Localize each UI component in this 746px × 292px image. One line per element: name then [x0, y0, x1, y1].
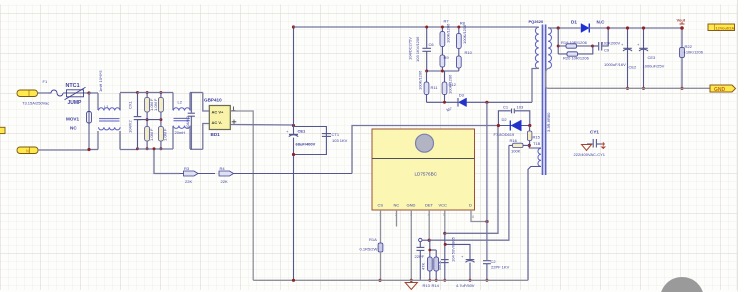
svg-text:AC V+: AC V+ — [212, 110, 225, 115]
node CE2 ground — [626, 87, 629, 90]
resistor R16 100K (DET feed) — [509, 138, 529, 154]
ground symbol — [405, 283, 417, 290]
svg-text:1mH 10*6*5: 1mH 10*6*5 — [98, 70, 103, 92]
svg-text:CX1: CX1 — [128, 100, 133, 109]
secondary top rail — [550, 27, 581, 29]
node R14 ground — [435, 279, 438, 282]
svg-text:CE3: CE3 — [648, 55, 657, 60]
ground symbol (CY1 left) — [582, 145, 592, 151]
svg-text:1000uF/16V: 1000uF/16V — [604, 62, 626, 67]
svg-text:R11: R11 — [431, 85, 439, 90]
wire mid junction CX1 to col B — [138, 119, 161, 121]
wire R4 to 352 riser — [234, 173, 353, 175]
resistor R2 (1.0M bottom, col A) — [145, 127, 150, 142]
node drain/C2 tap — [485, 101, 488, 104]
svg-text:N: N — [26, 149, 29, 154]
node CE3 top — [642, 26, 645, 29]
node: L line junction — [87, 91, 90, 94]
svg-text:R22: R22 — [685, 44, 693, 49]
svg-text:1.0M F: 1.0M F — [149, 128, 154, 141]
svg-text:MOV1: MOV1 — [66, 117, 79, 122]
svg-text:104/X2: 104/X2 — [185, 116, 190, 129]
capacitor C9 102K200V — [593, 28, 621, 53]
node C2 ground — [485, 279, 488, 282]
svg-text:R3: R3 — [184, 166, 190, 171]
svg-text:104/DC275V: 104/DC275V — [408, 37, 413, 60]
svg-text:R10: R10 — [465, 50, 473, 55]
svg-text:Vout: Vout — [677, 18, 686, 23]
node CE1 ground — [292, 279, 295, 282]
svg-text:CT1: CT1 — [332, 132, 340, 137]
svg-text:L1: L1 — [104, 104, 109, 109]
svg-text:100K/1206: 100K/1206 — [446, 23, 451, 43]
svg-text:CE2: CE2 — [629, 65, 638, 70]
svg-text:22PF 1KV: 22PF 1KV — [491, 265, 510, 270]
node col A mid — [146, 118, 149, 121]
resistor pair col B (1.0M) — [153, 93, 168, 149]
node R7 top — [441, 26, 444, 29]
NTC1 (thermistor, JUMP) — [63, 83, 89, 106]
node R12 bottom — [443, 101, 446, 104]
resistor R12 100K/1206 — [442, 71, 457, 102]
capacitor CE1 68uF/400V (bulk) — [286, 27, 298, 280]
svg-text:GND: GND — [714, 87, 726, 93]
svg-text:T1B: T1B — [533, 141, 541, 146]
svg-text:20mH: 20mH — [175, 130, 186, 135]
svg-text:1.0M F: 1.0M F — [163, 128, 168, 141]
node R22 ground — [680, 87, 683, 90]
wire drain riser — [486, 102, 488, 260]
left edge connector fragment — [0, 127, 5, 133]
transformer core — [543, 25, 551, 176]
wire CE1/CT1 loop — [294, 127, 327, 155]
node CX1 bottom — [136, 147, 139, 150]
svg-text:R14: R14 — [432, 283, 440, 288]
svg-text:R9: R9 — [444, 55, 450, 60]
node D2 anode — [528, 124, 531, 127]
node mid C6 — [425, 70, 428, 73]
connector J2 (neutral N) — [17, 147, 38, 154]
node CE4 ground — [469, 279, 472, 282]
node Vout — [680, 26, 684, 30]
svg-text:100K/1206: 100K/1206 — [462, 24, 467, 44]
wire R3 to R4 — [198, 173, 215, 175]
svg-text:GBP410: GBP410 — [204, 98, 222, 103]
diode D2 F7.8OD619 (VCC rectifier) — [494, 117, 530, 137]
transformer aux winding T1B — [528, 145, 541, 280]
wire top rail CX1 to L2 — [138, 92, 174, 94]
common-mode choke L1 — [98, 70, 120, 150]
node aux top junction — [528, 144, 531, 147]
wire col A — [146, 93, 148, 149]
svg-text:F1: F1 — [43, 79, 48, 84]
svg-text:NTC1: NTC1 — [66, 83, 80, 89]
resistor R4 22K — [219, 166, 234, 184]
svg-text:222/400VAC-CY1: 222/400VAC-CY1 — [574, 152, 606, 157]
wire VCC pin down — [444, 210, 446, 233]
wire AC rail down to R3 rail — [154, 149, 180, 174]
node D pin junction — [485, 220, 488, 223]
svg-text:100K/1206: 100K/1206 — [418, 70, 423, 90]
wire D3 to drain — [467, 101, 533, 103]
node CS ground — [378, 279, 381, 282]
wire D pin to drain riser — [471, 210, 487, 222]
svg-text:22K: 22K — [185, 179, 192, 184]
svg-text:103 1KV: 103 1KV — [332, 138, 348, 143]
svg-text:CY1: CY1 — [590, 130, 599, 135]
svg-text:PQ2620: PQ2620 — [529, 19, 544, 24]
svg-text:JUMP: JUMP — [68, 100, 83, 106]
svg-text:NC: NC — [394, 203, 400, 208]
node mid R9 — [441, 70, 444, 73]
svg-text:D3: D3 — [459, 93, 465, 98]
resistor R1 (1.0M top, col A) — [145, 98, 150, 113]
power marker (CY1 right) — [601, 142, 607, 149]
wire VCC feed from D2 — [445, 126, 498, 234]
capacitor CX1 104/X2 — [128, 93, 142, 149]
svg-text:DET: DET — [425, 203, 434, 208]
svg-text:22PF: 22PF — [415, 254, 425, 259]
svg-text:102K200V: 102K200V — [602, 41, 621, 46]
wire bridge minus output — [231, 111, 254, 280]
wire D1 cathode rail — [589, 27, 682, 29]
svg-text:R13: R13 — [423, 283, 431, 288]
node CE1 bottom — [292, 153, 295, 156]
node CE4 branch — [444, 243, 447, 246]
node R19/R20 right — [591, 45, 594, 48]
svg-text:104/X2: 104/X2 — [128, 120, 133, 133]
svg-text:F7.8OD619: F7.8OD619 — [494, 132, 515, 137]
wire J1 to fuse — [38, 92, 49, 94]
wire into bridge pins — [203, 93, 209, 112]
svg-text:LD7576BC: LD7576BC — [415, 172, 438, 177]
fuse F1 — [43, 79, 64, 96]
node: top rail corner — [292, 25, 295, 28]
connector output Vout 12V — [708, 24, 735, 31]
wire DET pin down — [428, 210, 430, 240]
resistor R13 47K — [421, 240, 433, 288]
resistor R10 100K/1206 — [456, 50, 472, 68]
node CX1 top — [136, 91, 139, 94]
svg-text:100K: 100K — [511, 149, 521, 154]
resistor R20 10R/1206 — [558, 46, 593, 61]
svg-text:NC: NC — [70, 126, 77, 131]
primary ground rail — [253, 279, 528, 281]
svg-text:R19 10R/1206: R19 10R/1206 — [561, 40, 588, 45]
svg-text:BD1: BD1 — [211, 132, 221, 137]
capacitor CX2 (X-cap at bridge) — [185, 93, 195, 150]
node R19/R20 left — [557, 45, 560, 48]
wire L1 to CX1 — [120, 92, 138, 94]
wire L2 to CX2 column — [190, 92, 203, 94]
wire CS pin down — [380, 210, 382, 243]
diode D3 M7 — [446, 93, 467, 113]
MOV1 (NC) — [66, 112, 91, 131]
top rail (+HV bus) — [294, 26, 535, 28]
node R13 ground — [428, 279, 431, 282]
resistor R11 100K/1206 — [418, 70, 439, 102]
svg-text:VCC: VCC — [439, 203, 448, 208]
svg-text:R4: R4 — [220, 166, 226, 171]
node R8 top — [457, 26, 460, 29]
diode D1 (output rectifier) — [571, 20, 605, 33]
svg-text:103 1KV/1206: 103 1KV/1206 — [415, 36, 420, 62]
connector J1 (line input L) — [17, 90, 38, 97]
svg-text:AC V-: AC V- — [212, 120, 223, 125]
node col B top — [159, 91, 162, 94]
svg-text:C6: C6 — [429, 42, 435, 47]
capacitor CE2 1000uF/16V — [604, 28, 637, 88]
svg-text:D: D — [469, 203, 472, 208]
svg-text:GND: GND — [407, 203, 416, 208]
snubber bottom wire to D3 — [427, 101, 459, 103]
wire bridge plus output — [231, 124, 294, 127]
gray circle watermark bottom-right — [660, 277, 704, 292]
svg-text:D2: D2 — [502, 117, 508, 122]
capacitor 22PF (DET filter) — [415, 247, 425, 280]
node col A top — [146, 91, 149, 94]
svg-text:R15: R15 — [533, 135, 541, 140]
svg-text:R7: R7 — [444, 19, 450, 24]
IC U1 LD7576BC — [372, 129, 475, 210]
svg-text:47K: 47K — [421, 263, 426, 270]
node col A bottom — [146, 147, 149, 150]
resistor R19 10R/1206 — [558, 40, 592, 48]
resistor R15 (series with D2) — [527, 126, 540, 147]
svg-text:CE1: CE1 — [298, 129, 307, 134]
svg-text:L2: L2 — [178, 100, 183, 105]
capacitor C1 103 (across D2) — [498, 105, 529, 126]
capacitor CE4 4.7uF/50V (VCC bulk) — [445, 244, 475, 288]
node GND rail — [410, 279, 413, 282]
svg-text:R1A: R1A — [369, 237, 377, 242]
capacitor CE3 1000uF/25V — [637, 28, 665, 88]
svg-text:T3.15A/250Vac: T3.15A/250Vac — [22, 101, 49, 106]
choke L2 20mH — [173, 93, 190, 150]
resistor R3 22K — [180, 166, 199, 184]
node col B bottom — [159, 147, 162, 150]
wire VCC feed riser — [352, 126, 498, 174]
Vout power port — [677, 18, 686, 25]
capacitor C10 104 50V/0805 (VCC decoupling) — [441, 233, 456, 280]
connector output GND — [710, 85, 736, 93]
node D2 cathode — [497, 124, 500, 127]
node CE2 top — [626, 26, 629, 29]
resistor R22 10K/1206 (bleeder) — [680, 28, 704, 88]
transformer secondary winding — [548, 28, 551, 69]
svg-text:68uF/400V: 68uF/400V — [296, 142, 316, 147]
node CE3 ground — [642, 87, 645, 90]
node col B mid — [159, 118, 162, 121]
svg-text:R16: R16 — [510, 138, 518, 143]
node R3 rail tap — [153, 147, 156, 150]
resistor R9 100K/1206 — [440, 55, 449, 67]
capacitor CY1 222/400VAC — [574, 130, 606, 158]
svg-text:4.7uF/50V: 4.7uF/50V — [456, 283, 475, 288]
svg-text:R20 10R/1206: R20 10R/1206 — [563, 56, 590, 61]
node C10 ground — [443, 279, 446, 282]
resistor R8 100K/1206 — [456, 21, 466, 72]
wire top rail into L1 — [89, 92, 98, 94]
wire L junction down — [88, 93, 90, 150]
wire GND pin down — [410, 210, 412, 283]
node CE1 plus — [292, 124, 295, 127]
node snubber left — [557, 26, 560, 29]
net stub with circle (DET cap tap) — [419, 238, 430, 247]
svg-text:D1: D1 — [571, 20, 577, 25]
svg-text:1.0M F: 1.0M F — [153, 98, 158, 111]
node C6 top — [425, 26, 428, 29]
svg-text:104 50V/0805: 104 50V/0805 — [451, 236, 456, 262]
svg-text:C1: C1 — [503, 105, 509, 110]
svg-text:0.1R5/2W: 0.1R5/2W — [360, 247, 378, 252]
wire J2 to L1 — [38, 149, 89, 151]
svg-text:560K: 560K — [437, 260, 442, 270]
svg-text:C2: C2 — [491, 259, 497, 264]
snubber cap C6 103/1KV — [408, 27, 435, 71]
snubber mid rail — [425, 70, 459, 72]
svg-text:103: 103 — [517, 105, 524, 110]
capacitor CT1 103/1KV — [322, 132, 348, 143]
node C9 top — [607, 26, 610, 29]
resistor R14 560K — [428, 249, 441, 288]
node DET junction — [428, 239, 431, 242]
wire DET feed from aux divider — [429, 145, 509, 240]
svg-text:1000uF/25V: 1000uF/25V — [643, 64, 665, 69]
bridge rectifier BD1 GBP410 — [204, 98, 236, 138]
node: N junction — [87, 148, 90, 151]
svg-text:+10K/1206: +10K/1206 — [684, 50, 704, 55]
svg-text:C9: C9 — [604, 48, 610, 53]
wire NC pin stub — [396, 210, 398, 227]
wire snubber left drop — [557, 28, 559, 54]
transformer T1 PQ2620 primary winding — [529, 19, 544, 69]
secondary winding return — [546, 68, 710, 88]
svg-text:100K/1206: 100K/1206 — [448, 74, 453, 94]
svg-text:22K: 22K — [221, 179, 228, 184]
node VCC junction — [443, 232, 446, 235]
svg-text:3.3R-6R80: 3.3R-6R80 — [546, 112, 551, 132]
wire drain riser to primary bottom — [532, 69, 536, 103]
resistor R1A 0.1R5/2W (CS sense) — [360, 237, 383, 280]
svg-text:N.C: N.C — [597, 20, 606, 25]
resistor R7 100K/1206 — [440, 19, 451, 72]
svg-text:12Vout/2A: 12Vout/2A — [716, 25, 735, 30]
capacitor C2 22PF 1KV (drain) — [483, 259, 510, 280]
svg-text:CS: CS — [378, 203, 384, 208]
